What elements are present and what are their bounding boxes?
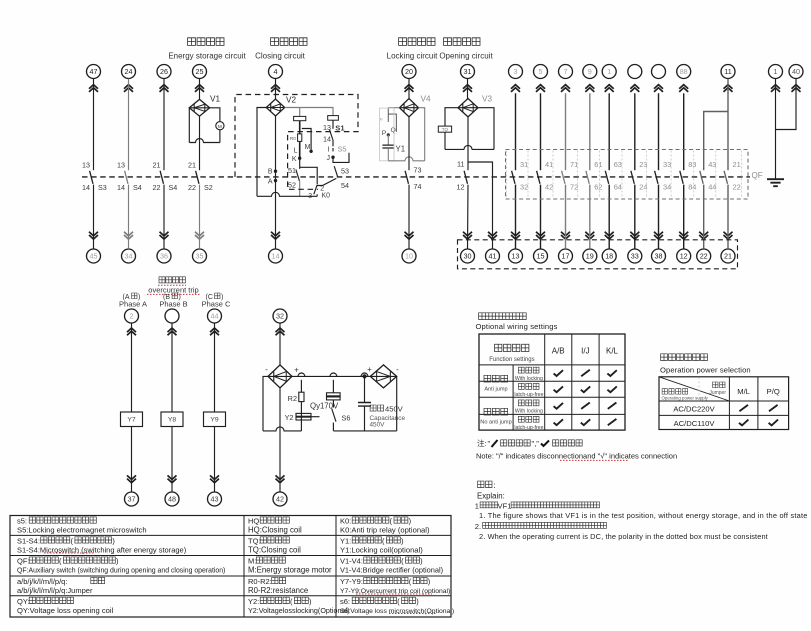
svg-text:3: 3 [514, 67, 518, 76]
wire V3 bottom rail with hump [445, 145, 494, 149]
svg-text:17: 17 [562, 252, 570, 261]
svg-text:34: 34 [663, 182, 671, 191]
svg-text:s6:: s6: [340, 597, 350, 606]
svg-text:S2: S2 [204, 183, 213, 192]
svg-text:V1-V4:: V1-V4: [340, 557, 363, 566]
svg-text:13: 13 [82, 161, 90, 170]
svg-text:62: 62 [594, 182, 602, 191]
wire bottom rail left with hump [263, 427, 301, 431]
header closing circuit (Chinese) [271, 38, 307, 46]
dashed box bottom terminals [458, 240, 738, 269]
svg-text:s5:: s5: [17, 517, 27, 526]
node P dot [387, 133, 390, 136]
svg-text:Operation power selection: Operation power selection [660, 366, 751, 375]
terminal 45 bottom at x=93.5 [87, 249, 101, 263]
wire 11 down [727, 79, 729, 171]
svg-text:14: 14 [117, 183, 125, 192]
microswitch S2 contact [196, 171, 199, 184]
wire arrow [276, 475, 285, 482]
svg-text:V3: V3 [482, 95, 492, 104]
cell latch-up-free [518, 383, 539, 389]
svg-text:14: 14 [82, 183, 90, 192]
svg-text:48: 48 [168, 495, 176, 504]
svg-text:R2: R2 [288, 394, 297, 403]
svg-text:88: 88 [680, 67, 688, 76]
node K dot [298, 157, 301, 160]
coil K0 [328, 116, 339, 121]
mechanical linkage dashed line [82, 176, 750, 178]
contact 73-74 [405, 171, 408, 184]
motor M [216, 122, 224, 130]
wire Y9 lower [214, 427, 216, 492]
svg-text:QY:: QY: [17, 597, 30, 606]
QF contact 41-42 [537, 171, 540, 184]
svg-text:26: 26 [160, 67, 168, 76]
QF box separator [599, 151, 601, 199]
svg-text:5: 5 [539, 67, 543, 76]
svg-text:QF:: QF: [17, 557, 30, 566]
header energy storage circuit (Chinese) [188, 38, 224, 46]
wire phase Phase C [214, 323, 216, 412]
svg-text:VF1: VF1 [498, 501, 512, 510]
svg-text:V1: V1 [210, 95, 220, 104]
terminal phase Phase C [208, 309, 222, 323]
svg-text:Q: Q [391, 127, 396, 134]
mark r3c3 [608, 403, 617, 409]
svg-text:M: M [218, 124, 222, 130]
terminal 37 [125, 492, 139, 506]
terminal 33 bottom at x=634.8 [628, 249, 642, 263]
QF contact 31-32 [512, 171, 515, 184]
node M dot [309, 150, 312, 153]
terminal 43 [208, 492, 222, 506]
svg-text:S1-S4:Microswitch (switching a: S1-S4:Microswitch (switching after energ… [17, 546, 187, 555]
svg-text:22: 22 [700, 252, 708, 261]
wire R2 branch upper [300, 380, 302, 392]
wire QF column 72 lower [565, 185, 567, 249]
terminal 30 bottom at x=467.5 [461, 249, 475, 263]
contact K0 [314, 185, 317, 195]
svg-text:M: M [305, 144, 311, 151]
wire 20 to V4 [408, 79, 410, 99]
wire Y7 lower [131, 427, 133, 492]
wire V2 top rail right [285, 108, 333, 116]
QF box separator [741, 151, 743, 199]
wire 12 to terminal 30 [467, 185, 470, 249]
terminal 32 [273, 309, 287, 323]
wire Qy branch upper [332, 380, 334, 393]
wire arrow [724, 232, 733, 239]
trip coil Y7 [121, 412, 143, 427]
mark 220 M/L [739, 405, 748, 411]
svg-text:K0: K0 [322, 193, 331, 200]
wire P to capacitor Y1 [387, 135, 389, 145]
mark r2c3 [607, 386, 616, 392]
terminal 19 bottom at x=589.8 [583, 249, 597, 263]
terminal 20 top at x=409 [402, 65, 416, 79]
svg-text:36: 36 [160, 252, 168, 261]
wire 25 to V1 [199, 79, 201, 100]
table operation power grid [659, 377, 789, 430]
svg-text:84: 84 [688, 182, 696, 191]
terminal 22 bottom at x=703.7 [697, 249, 711, 263]
svg-text:R0-R2:resistance: R0-R2:resistance [248, 586, 308, 595]
wire arrow [89, 232, 98, 239]
capacitor Y1 [382, 145, 394, 148]
legend table grid [10, 516, 451, 618]
QF box separator [646, 151, 648, 199]
svg-text:L: L [294, 148, 298, 155]
terminal blank top at x=634.8 [628, 65, 642, 79]
wire R0 to node K [299, 141, 301, 158]
title optional wiring settings (Chinese) [479, 313, 527, 320]
wire Y2 link right [311, 416, 320, 418]
wire arrow [463, 85, 472, 92]
cell operating power [662, 389, 688, 394]
wire arrow [585, 232, 594, 239]
svg-text:S5: S5 [338, 145, 347, 154]
svg-text:74: 74 [414, 182, 422, 191]
svg-text:S4: S4 [133, 183, 142, 192]
svg-text:450V: 450V [385, 405, 404, 414]
svg-text:21: 21 [188, 161, 196, 170]
QF box separator [670, 151, 672, 199]
red underline microswitch [44, 552, 94, 554]
svg-text:K0:: K0: [340, 517, 351, 526]
svg-text:45: 45 [90, 252, 98, 261]
wire K to contact 51 [299, 158, 301, 169]
svg-text:P/Q: P/Q [767, 387, 780, 396]
svg-text:K: K [292, 156, 297, 163]
svg-text:TQ:Closing coil: TQ:Closing coil [248, 546, 301, 555]
svg-text:10: 10 [405, 252, 413, 261]
wire arrow [195, 232, 204, 239]
svg-text:38: 38 [655, 252, 663, 261]
svg-text:R0-R2:: R0-R2: [248, 577, 272, 586]
wire QF column 83 [683, 93, 685, 170]
svg-text:42: 42 [545, 182, 553, 191]
svg-text:Y1:: Y1: [340, 537, 351, 546]
red underline note [560, 459, 629, 461]
svg-text:Qy170V: Qy170V [310, 402, 339, 411]
svg-text:",": "," [532, 439, 540, 448]
wire V2 left rail [257, 108, 266, 197]
svg-text:Operating power supply: Operating power supply [662, 395, 709, 400]
bridge rectifier V1 [189, 99, 209, 116]
svg-text:V4: V4 [421, 95, 431, 104]
svg-text:V1-V4:Bridge rectifier (option: V1-V4:Bridge rectifier (optional) [340, 566, 443, 575]
svg-text:13: 13 [323, 123, 331, 132]
wire column S3 upper [93, 79, 95, 171]
svg-text:11: 11 [724, 67, 731, 76]
svg-text::: : [494, 481, 496, 490]
terminal 10 bottom at x=409 [402, 249, 416, 263]
jumper I tick [332, 148, 334, 151]
svg-text:12: 12 [680, 252, 688, 261]
svg-text:2: 2 [130, 312, 134, 321]
svg-text:QY:Voltage loss opening coil: QY:Voltage loss opening coil [17, 606, 114, 615]
wire column S2 lower [199, 185, 201, 249]
header opening circuit (Chinese) [444, 38, 480, 46]
terminal 42 [273, 492, 287, 506]
cell function settings [495, 344, 529, 351]
red underline overcurrent [356, 593, 432, 595]
QF box separator [577, 151, 579, 199]
wire V3 mid output [467, 117, 469, 170]
wire arrow [679, 232, 688, 239]
terminal 3 top at x=515.5 [509, 65, 523, 79]
svg-text:注:: 注: [477, 438, 487, 448]
terminal 26 top at x=164 [157, 65, 171, 79]
wire arrow [127, 328, 136, 335]
mark 110 M/L [739, 420, 748, 426]
svg-text:7: 7 [564, 67, 568, 76]
wire mid 32-42 [279, 388, 281, 492]
terminal 14 bottom at x=275.5 [269, 249, 283, 263]
svg-text:M/L: M/L [737, 387, 750, 396]
svg-text:K0:Anti trip relay (optional): K0:Anti trip relay (optional) [340, 526, 430, 535]
terminal 15 bottom at x=540.5 [534, 249, 548, 263]
wire arrow [168, 475, 177, 482]
svg-text:HQ:: HQ: [248, 517, 261, 526]
wire V1 bottom rail with hump [189, 139, 220, 143]
terminal 21 bottom at x=728 [721, 249, 735, 263]
svg-text:A/B: A/B [552, 347, 565, 356]
svg-text:Y7-Y9:: Y7-Y9: [340, 577, 363, 586]
wire arrow [127, 475, 136, 482]
cell jumper [713, 382, 725, 388]
svg-text:K/L: K/L [606, 347, 619, 356]
mark r2c2 [581, 386, 590, 392]
svg-text:43: 43 [708, 160, 716, 169]
jumper M hook [302, 129, 311, 150]
red underline microswitch2 [389, 613, 437, 615]
wire V4 right rail [419, 108, 425, 161]
wire arrow [792, 85, 801, 92]
QF contact 21-22 [724, 171, 727, 184]
svg-text:21: 21 [724, 252, 732, 261]
svg-text:latch-up-free: latch-up-free [514, 392, 543, 398]
svg-text:HQ:Closing coil: HQ:Closing coil [248, 526, 302, 535]
dashed box QF contacts [506, 150, 749, 200]
wire QF column 62 lower [589, 185, 591, 249]
svg-text:Y7: Y7 [127, 417, 136, 424]
svg-text:42: 42 [276, 495, 284, 504]
wire arrow [585, 85, 594, 92]
wire 54 jog to K0 [317, 178, 336, 185]
wire arrow [89, 85, 98, 92]
wire V4 left horizontal [388, 107, 399, 109]
header locking circuit (Chinese) [399, 38, 435, 46]
mark r3c2 [581, 403, 590, 409]
svg-text:Y1:Locking coil(optional): Y1:Locking coil(optional) [340, 546, 423, 555]
svg-text:1. The figure shows that VF1 i: 1. The figure shows that VF1 is in the t… [479, 511, 808, 520]
wire drop to HQ coil [299, 108, 301, 117]
node J dot [331, 156, 334, 159]
svg-text:40: 40 [792, 67, 800, 76]
wire arrow [210, 475, 219, 482]
svg-text:R0: R0 [290, 136, 296, 141]
mark r4c2 [581, 419, 590, 425]
QF contact 33-34 [655, 171, 658, 184]
wire arrow [654, 85, 663, 92]
microswitch S4 contact [125, 171, 128, 184]
wire arrow [405, 85, 414, 92]
wire V4 mid output [408, 117, 410, 170]
wire branch to terminal 41 [468, 162, 493, 249]
svg-text:1: 1 [607, 67, 611, 76]
contact 53-54 [334, 166, 338, 177]
svg-text:latch-up-free: latch-up-free [514, 425, 543, 431]
wire arrow [271, 232, 280, 239]
svg-text:a/b/j/k/l/m/l/p/q:Jumper: a/b/j/k/l/m/l/p/q:Jumper [17, 586, 93, 595]
svg-text:31: 31 [520, 160, 528, 169]
terminal 5 top at x=540.5 [534, 65, 548, 79]
contact S1 [329, 129, 332, 139]
svg-text:B: B [268, 169, 273, 176]
wire arrow [168, 328, 177, 335]
wire capacitor branch upper [364, 376, 366, 402]
terminal 4 top at x=275.5 [269, 65, 283, 79]
dashed polarity box closing [235, 95, 358, 190]
QF contact 63-64 [605, 171, 608, 184]
svg-text:2. When the operating current: 2. When the operating current is DC, the… [479, 532, 768, 541]
resistor R2 [299, 392, 304, 401]
wire arrow [605, 232, 614, 239]
svg-text:Jumper: Jumper [709, 390, 726, 396]
svg-text:Y8: Y8 [168, 417, 177, 424]
wire arrow [405, 232, 414, 239]
mark r2c1 [554, 386, 563, 392]
wire HQ to R0 [299, 121, 301, 134]
contact 51-52 [296, 170, 300, 181]
terminal phase Phase B [165, 309, 179, 323]
svg-text:32: 32 [276, 312, 284, 321]
node A dot [274, 179, 277, 182]
svg-text:With locking: With locking [515, 376, 543, 382]
svg-text:35: 35 [196, 252, 204, 261]
svg-text:9: 9 [588, 67, 592, 76]
terminal 17 bottom at x=565.5 [559, 249, 573, 263]
svg-text:Explain:: Explain: [477, 491, 505, 500]
resistor R0 [298, 134, 302, 142]
wire QF column 71 [565, 93, 567, 170]
svg-text:AC/DC110V: AC/DC110V [674, 419, 716, 428]
QF box separator [621, 151, 623, 199]
svg-text:Y9: Y9 [210, 417, 219, 424]
svg-text:22: 22 [188, 183, 196, 192]
terminal 1 top at x=775.5 [769, 65, 783, 79]
wire column S4 upper [128, 79, 130, 171]
node B dot [274, 170, 277, 173]
wire V1 right to motor [210, 108, 220, 122]
table optional wiring settings grid [479, 334, 625, 430]
wire arrow [276, 328, 285, 335]
terminal 9 top at x=589.8 [583, 65, 597, 79]
wire arrow [271, 85, 280, 92]
svg-text:73: 73 [414, 166, 422, 175]
wire V3 right rail [478, 108, 494, 150]
wire TQ to bottom [444, 132, 446, 149]
bridge rectifier V4 [400, 99, 419, 117]
wire QF column 42 lower [540, 185, 542, 249]
terminal phase Phase A [125, 309, 139, 323]
QF contact 23-24 [631, 171, 634, 184]
wire column S4 upper [163, 79, 165, 171]
svg-text:S3: S3 [98, 183, 107, 192]
svg-text:43: 43 [211, 495, 219, 504]
svg-text:Closing circuit: Closing circuit [255, 52, 306, 61]
wire right rail [396, 376, 398, 431]
wire capacitor lower [364, 406, 366, 431]
terminal 38 bottom at x=658.5 [652, 249, 666, 263]
rectifier diode left [268, 365, 292, 388]
wire arrow [771, 85, 780, 92]
relay Y2 [296, 413, 311, 420]
svg-text:13: 13 [117, 161, 125, 170]
svg-text:53: 53 [341, 167, 349, 176]
microswitch S4 contact [160, 171, 163, 184]
wire left rail Y2 block [263, 376, 268, 431]
coil HQ [294, 116, 306, 120]
wire top rail [292, 375, 371, 377]
mark r4c3 [608, 419, 617, 425]
svg-text:M:Energy storage motor: M:Energy storage motor [248, 566, 332, 575]
svg-text:Phase C: Phase C [202, 299, 231, 308]
svg-text:21: 21 [153, 161, 161, 170]
bridge rectifier V3 [458, 99, 478, 117]
switch S6 [332, 400, 336, 431]
jumper P tick upper [387, 108, 389, 122]
mark r1c1 [554, 370, 563, 376]
wire V1 mid output [199, 116, 201, 170]
capacitor 450V [358, 403, 371, 407]
wire motor to bottom [219, 130, 221, 143]
terminal 24 top at x=128.5 [122, 65, 136, 79]
svg-text:12: 12 [457, 182, 465, 191]
svg-text:-: - [265, 365, 268, 374]
wire arrow [630, 85, 639, 92]
terminal 36 bottom at x=164 [157, 249, 171, 263]
terminal 25 top at x=199.5 [193, 65, 207, 79]
svg-text:13: 13 [512, 252, 520, 261]
cell With locking [518, 367, 539, 373]
svg-text:30: 30 [464, 252, 472, 261]
svg-text:72: 72 [570, 182, 578, 191]
svg-text:33: 33 [631, 252, 639, 261]
QF contact 71-72 [562, 171, 565, 184]
svg-text:With locking: With locking [515, 409, 543, 415]
wire arrow [488, 232, 497, 239]
hop arc Qy branch [330, 373, 337, 376]
svg-text:64: 64 [614, 182, 622, 191]
red underline [147, 293, 200, 295]
svg-text:AC/DC220V: AC/DC220V [673, 405, 715, 414]
coil TQ [438, 126, 451, 132]
svg-text:33: 33 [663, 160, 671, 169]
wire S1 stub [332, 120, 334, 129]
wire Y8 lower [171, 427, 173, 492]
cell anti jump [484, 375, 508, 382]
svg-text:4: 4 [274, 67, 278, 76]
wire QF column 33 [658, 93, 660, 170]
QF box separator [715, 151, 717, 199]
svg-text:Function settings: Function settings [489, 357, 534, 363]
svg-text:M:: M: [248, 557, 256, 566]
ground symbol [767, 179, 784, 186]
svg-text:52: 52 [288, 181, 296, 190]
wire 4 to V2 [275, 79, 277, 99]
